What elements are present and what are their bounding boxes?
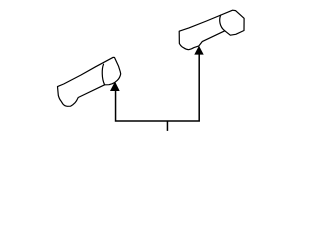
left object outline bbox=[58, 57, 121, 106]
center tick bbox=[166, 121, 168, 131]
right arrowhead bbox=[194, 46, 203, 55]
right lens bezel arc bbox=[220, 15, 225, 31]
left arrowhead bbox=[110, 82, 120, 92]
left lens bezel arc bbox=[102, 64, 104, 85]
bracket connector bbox=[116, 54, 200, 121]
right object outline bbox=[179, 10, 244, 50]
